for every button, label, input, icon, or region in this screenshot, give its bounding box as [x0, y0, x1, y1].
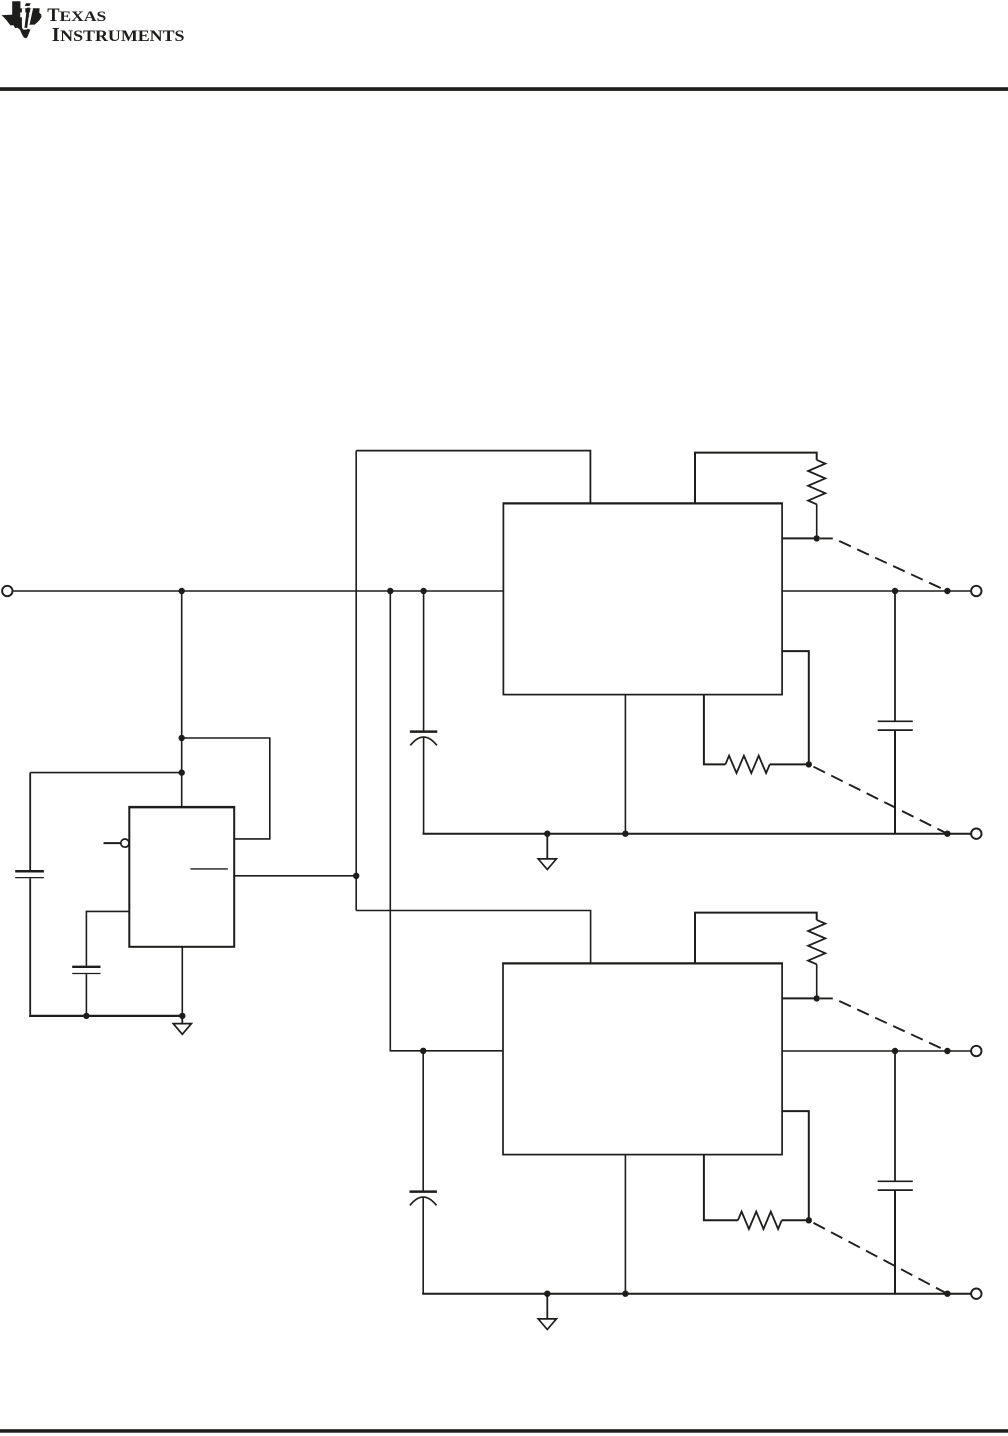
U1 enable bubble — [121, 839, 129, 847]
wire main input rail — [13, 590, 504, 592]
ground rail 2 — [422, 1293, 970, 1295]
resistor R4 feedback — [738, 1212, 782, 1229]
wire bottom-left ground bus — [29, 1015, 182, 1017]
node ground2 sense — [944, 1291, 950, 1297]
wire U1 supply column — [181, 591, 183, 807]
dashed sense line 4 — [814, 1223, 946, 1293]
footer rule — [0, 1429, 1008, 1433]
wire U1 feedback loop — [182, 738, 270, 839]
wire enable vertical — [355, 451, 357, 911]
wire output 2 — [782, 1050, 970, 1052]
wire R3 top loop — [695, 913, 817, 964]
wire IC2 ground pin — [624, 1155, 626, 1294]
wire U1 ground pin — [181, 947, 183, 1016]
wire R4 right leg — [782, 1219, 809, 1221]
wire C2 bottom — [85, 974, 87, 1016]
wire C2 branch — [86, 911, 129, 965]
node ground1 symbol — [544, 831, 550, 837]
dashed sense line 1 — [820, 538, 946, 590]
svg-text:EXAS: EXAS — [60, 9, 107, 25]
node C2 ground — [83, 1013, 89, 1019]
wire R1 top loop — [695, 453, 817, 504]
U1 overline — [190, 868, 228, 870]
node main-U1 — [179, 588, 185, 594]
node U1 left branch — [179, 769, 185, 775]
dashed sense line 2 — [814, 767, 946, 833]
wire feedback loop 1 — [782, 651, 809, 764]
node R2 sense — [806, 761, 812, 767]
IC U1 supervisor block — [129, 807, 234, 947]
node U1 output — [353, 873, 359, 879]
node main-C1 — [420, 588, 426, 594]
node IC2 ground — [622, 1291, 628, 1297]
U1 top edge — [128, 806, 235, 808]
wire enable to IC1 — [356, 451, 590, 504]
node main-IC2 — [387, 588, 393, 594]
capacitor CO1 — [878, 591, 913, 834]
wire C1 bottom — [423, 737, 425, 834]
node R3 sense — [814, 995, 820, 1001]
wire IC2 input column — [390, 591, 503, 1051]
dashed sense line 3 — [820, 998, 946, 1050]
wire R2 left leg — [704, 695, 726, 765]
node U1 ground — [179, 1013, 185, 1019]
capacitor CO2 — [878, 1051, 913, 1294]
wire R3 bottom — [816, 964, 818, 998]
wire R2 right leg — [770, 763, 809, 765]
wire C3 bottom — [422, 1197, 424, 1294]
node output1 sense — [944, 588, 950, 594]
wire enable to IC2 — [356, 911, 590, 964]
node output2 sense — [944, 1048, 950, 1054]
input terminal VI — [2, 586, 12, 596]
ground G2 — [538, 1294, 556, 1330]
ground rail 1 — [423, 833, 971, 835]
U1 enable stub — [104, 842, 121, 844]
TI logo Texas map icon — [1, 1, 41, 38]
IC regulator U3 — [503, 963, 782, 1154]
node C3 input — [420, 1048, 426, 1054]
node ground1 sense — [944, 831, 950, 837]
wire U1 left branch — [30, 772, 182, 774]
TI logo text — [47, 6, 185, 46]
node IC1 ground — [622, 831, 628, 837]
wire output 1 — [782, 590, 970, 592]
node ground2 symbol — [544, 1291, 550, 1297]
node R4 sense — [806, 1217, 812, 1223]
resistor R1 — [808, 460, 825, 504]
capacitor C2 — [72, 967, 100, 974]
capacitor C3 polarized — [410, 1192, 437, 1206]
output terminal 2 — [971, 1046, 981, 1056]
node CO2 — [892, 1048, 898, 1054]
wire left cap bottom — [29, 878, 31, 1015]
wire IC1 sense stub — [782, 537, 817, 539]
ground terminal 1 — [971, 829, 981, 839]
output terminal 1 — [971, 586, 981, 596]
node U1 loop — [179, 735, 185, 741]
wire C3 top — [422, 1051, 424, 1191]
header rule — [0, 87, 1008, 91]
ground G1 — [538, 834, 556, 870]
wire U1 output — [234, 875, 356, 877]
resistor R2 feedback — [725, 756, 769, 773]
capacitor C1 polarized — [410, 732, 437, 746]
wire left cap top — [29, 773, 31, 870]
resistor R3 — [808, 920, 825, 964]
ground terminal 2 — [971, 1289, 981, 1299]
svg-text:I: I — [52, 24, 60, 46]
capacitor CT left — [15, 871, 44, 877]
wire C1 top — [423, 591, 425, 731]
wire R1 bottom — [816, 504, 818, 538]
wire IC1 ground pin — [624, 695, 626, 834]
svg-text:NSTRUMENTS: NSTRUMENTS — [60, 28, 185, 45]
wire IC2 sense stub — [782, 997, 817, 999]
node R1 sense — [814, 535, 820, 541]
IC regulator U2 — [503, 503, 782, 694]
wire R4 left leg — [704, 1155, 738, 1221]
wire feedback loop 2 — [782, 1111, 809, 1220]
ground G3 under U1 — [173, 1016, 191, 1034]
node CO1 — [892, 588, 898, 594]
